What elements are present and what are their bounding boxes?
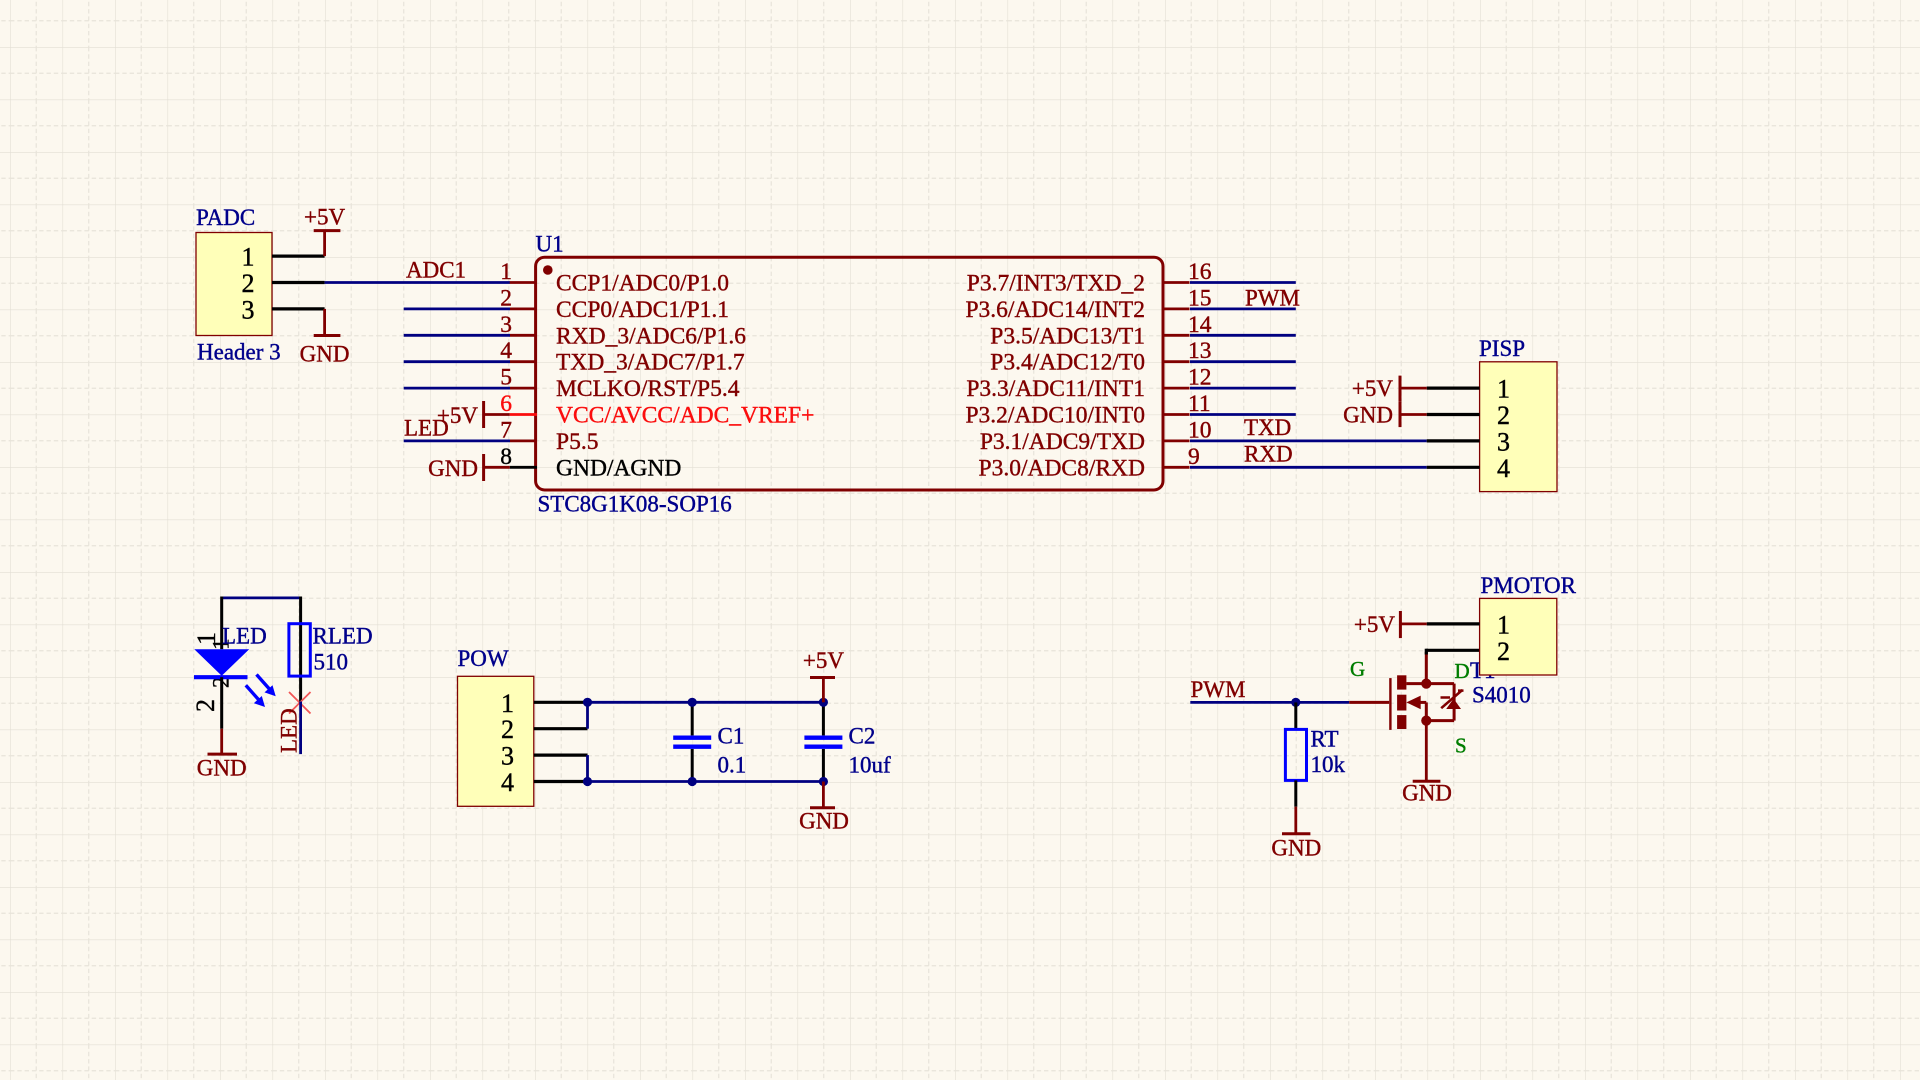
junction at T1 drain	[1421, 679, 1431, 689]
LED D1 pin 1	[220, 597, 223, 650]
ground GND at U1 pin 8	[482, 454, 485, 481]
svg-text:D: D	[1455, 659, 1470, 683]
junction at RT top	[1291, 698, 1300, 707]
POW pin 4	[534, 780, 588, 783]
svg-text:RLED: RLED	[313, 624, 373, 649]
capacitor C1 plates	[673, 736, 711, 740]
svg-text:LED: LED	[277, 708, 302, 753]
PMOTOR pin 1	[1427, 622, 1480, 625]
junction at POW pin4	[583, 777, 592, 786]
wire stub at U1 pin 14	[1190, 334, 1296, 337]
svg-text:P3.5/ADC13/T1: P3.5/ADC13/T1	[990, 323, 1145, 349]
resistor RLED body	[289, 624, 310, 676]
IC U1 body STC8G1K08-SOP16	[536, 257, 1163, 490]
svg-text:1: 1	[501, 689, 514, 718]
U1 pin 3 RXD_3/ADC6/P1.6	[510, 334, 537, 337]
wire GND bottom rail	[588, 780, 824, 783]
svg-text:C1: C1	[718, 724, 745, 749]
POW pin 3	[534, 753, 588, 756]
PISP pin 2	[1427, 413, 1480, 416]
power port +5V at U1 pin 6	[482, 401, 485, 428]
svg-text:PISP: PISP	[1479, 336, 1525, 361]
svg-text:PADC: PADC	[196, 205, 255, 230]
U1 pin 14 P3.5/ADC13/T1	[1162, 334, 1190, 337]
svg-text:S: S	[1455, 734, 1467, 758]
svg-text:P3.6/ADC14/INT2: P3.6/ADC14/INT2	[965, 297, 1145, 323]
transistor T1 channel stubs	[1397, 675, 1406, 689]
wire stub at U1 pin 11	[1190, 413, 1296, 416]
wire from LED anode to RLED	[222, 597, 301, 600]
svg-text:CCP1/ADC0/P1.0: CCP1/ADC0/P1.0	[556, 271, 729, 297]
svg-text:GND: GND	[428, 456, 478, 481]
wire stub at U1 pin 16	[1190, 281, 1296, 284]
body zener diode	[1446, 699, 1461, 709]
LED light arrow 1	[257, 675, 271, 691]
svg-text:10uf: 10uf	[849, 753, 892, 778]
svg-text:P3.4/ADC12/T0: P3.4/ADC12/T0	[990, 350, 1145, 376]
transistor T1 source arrow	[1406, 696, 1420, 710]
svg-text:2: 2	[191, 699, 220, 712]
PADC pin 1	[272, 255, 325, 258]
U1 pin 2 CCP0/ADC1/P1.1	[510, 307, 537, 310]
U1 pin 8 GND/AGND	[510, 466, 537, 469]
power port +5V above C2	[810, 676, 835, 679]
power port +5V at PISP pin 1	[1399, 376, 1402, 402]
svg-text:STC8G1K08-SOP16: STC8G1K08-SOP16	[538, 492, 732, 517]
svg-text:RT: RT	[1311, 727, 1339, 752]
svg-text:RXD_3/ADC6/P1.6: RXD_3/ADC6/P1.6	[556, 323, 746, 349]
ground GND below LED	[220, 729, 223, 754]
wire net ADC1 from PADC.2 to U1.1	[325, 281, 510, 284]
svg-text:GND: GND	[197, 756, 247, 781]
wire stub at U1 pin 12	[1190, 387, 1296, 390]
junction at C2 bottom	[819, 777, 828, 786]
capacitor C2 pins	[822, 702, 825, 735]
U1 pin-1 indicator dot	[543, 265, 553, 275]
svg-text:0.1: 0.1	[718, 753, 747, 778]
wire net TXD from U1.10 to PISP.3	[1190, 439, 1427, 442]
wire stub at U1 pin 4	[404, 360, 510, 363]
svg-text:C2: C2	[849, 724, 876, 749]
transistor T1 source lead	[1426, 719, 1454, 722]
wire +5V top rail	[588, 701, 824, 704]
U1 pin 11 P3.2/ADC10/INT0	[1162, 413, 1190, 416]
wire net LED at U1 pin 7	[404, 439, 510, 442]
transistor T1 gate lead	[1349, 701, 1389, 704]
resistor RT pin 1	[1294, 702, 1297, 729]
connector PMOTOR body	[1480, 598, 1557, 675]
wire stub at U1 pin 2	[404, 307, 510, 310]
svg-text:S4010: S4010	[1472, 683, 1531, 708]
svg-text:Header 3: Header 3	[197, 340, 281, 365]
svg-text:P3.3/ADC11/INT1: P3.3/ADC11/INT1	[966, 376, 1145, 402]
connector POW body	[458, 676, 534, 806]
LED light arrow 2	[246, 685, 260, 701]
PISP pin 1	[1427, 387, 1480, 390]
wire POW pin3-pin4 stub	[586, 755, 589, 781]
connector PADC body	[196, 233, 272, 336]
svg-text:P3.2/ADC10/INT0: P3.2/ADC10/INT0	[965, 403, 1145, 429]
svg-text:VCC/AVCC/ADC_VREF+: VCC/AVCC/ADC_VREF+	[556, 403, 814, 429]
svg-text:TXD: TXD	[1244, 415, 1291, 440]
svg-text:P5.5: P5.5	[556, 429, 598, 455]
U1 pin 10 P3.1/ADC9/TXD	[1162, 439, 1190, 442]
transistor T1 drain lead	[1406, 682, 1454, 685]
capacitor C2 plates	[804, 736, 842, 740]
svg-text:ADC1: ADC1	[406, 258, 466, 283]
ground GND below C2	[822, 782, 825, 808]
transistor T1 gate bar	[1389, 678, 1391, 730]
junction at C1 top	[688, 698, 697, 707]
U1 pin 5 MCLKO/RST/P5.4	[510, 387, 537, 390]
wire stub at U1 pin 3	[404, 334, 510, 337]
no-connect cross marker	[289, 692, 311, 714]
svg-text:LED: LED	[222, 624, 267, 649]
connector PISP body	[1480, 362, 1557, 492]
svg-text:2: 2	[1497, 401, 1510, 430]
svg-text:3: 3	[1497, 427, 1510, 456]
svg-text:G: G	[1350, 657, 1365, 681]
svg-text:+5V: +5V	[803, 648, 844, 673]
svg-text:2: 2	[501, 715, 514, 744]
U1 pin 4 TXD_3/ADC7/P1.7	[510, 360, 537, 363]
U1 pin 9 P3.0/ADC8/RXD	[1162, 466, 1190, 469]
wire net PWM to T1 gate	[1190, 701, 1349, 704]
svg-text:1: 1	[500, 259, 512, 285]
U1 pin 6 VCC/AVCC/ADC_VREF+	[510, 413, 537, 416]
svg-text:1: 1	[1497, 610, 1510, 639]
svg-text:+5V: +5V	[1354, 612, 1395, 637]
PISP pin 4	[1427, 466, 1480, 469]
wire stub at U1 pin 13	[1190, 360, 1296, 363]
U1 pin 15 P3.6/ADC14/INT2	[1162, 307, 1190, 310]
ground GND below T1 source	[1425, 721, 1428, 782]
svg-text:CCP0/ADC1/P1.1: CCP0/ADC1/P1.1	[556, 297, 729, 323]
svg-text:GND: GND	[1402, 781, 1452, 806]
wire net RXD from U1.9 to PISP.4	[1190, 466, 1427, 469]
svg-text:GND: GND	[300, 342, 350, 367]
U1 pin 12 P3.3/ADC11/INT1	[1162, 387, 1190, 390]
U1 pin 1 CCP1/ADC0/P1.0	[510, 281, 537, 284]
svg-text:510: 510	[314, 650, 349, 675]
junction at POW pin1	[583, 698, 592, 707]
svg-text:PMOTOR: PMOTOR	[1481, 573, 1577, 598]
svg-text:+5V: +5V	[437, 403, 478, 428]
svg-text:2: 2	[1497, 637, 1510, 666]
LED D1 symbol	[194, 649, 249, 676]
wire stub at U1 pin 5	[404, 387, 510, 390]
power port +5V at PADC pin 1	[314, 229, 341, 232]
junction at T1 source	[1421, 716, 1431, 726]
svg-text:+5V: +5V	[304, 205, 345, 230]
ground GND at PADC pin 3	[323, 309, 326, 336]
PADC pin 3	[272, 307, 325, 310]
ground GND at PISP pin 2	[1399, 401, 1402, 427]
svg-text:GND: GND	[1271, 836, 1321, 861]
junction at C1 bottom	[688, 777, 697, 786]
svg-text:4: 4	[501, 768, 514, 797]
resistor RLED pin 1	[299, 597, 302, 702]
LED D1 pin 2	[220, 677, 223, 729]
power port +5V at PMOTOR pin 1	[1399, 611, 1402, 638]
svg-text:U1: U1	[536, 232, 564, 257]
transistor T1 drain vertical	[1425, 652, 1428, 684]
svg-text:TXD_3/ADC7/P1.7: TXD_3/ADC7/P1.7	[556, 350, 745, 376]
wire T1 drain to PMOTOR pin 2	[1425, 649, 1428, 655]
svg-text:1: 1	[242, 243, 255, 272]
svg-text:POW: POW	[458, 646, 509, 671]
svg-text:P3.7/INT3/TXD_2: P3.7/INT3/TXD_2	[967, 271, 1145, 297]
POW pin 1	[534, 701, 588, 704]
svg-text:RXD: RXD	[1244, 442, 1293, 467]
U1 pin 13 P3.4/ADC12/T0	[1162, 360, 1190, 363]
wire stub at U1 pin 15	[1190, 307, 1296, 310]
svg-text:MCLKO/RST/P5.4: MCLKO/RST/P5.4	[556, 376, 740, 402]
U1 pin 16 P3.7/INT3/TXD_2	[1162, 281, 1190, 284]
svg-text:4: 4	[1497, 454, 1510, 483]
svg-text:GND: GND	[799, 809, 849, 834]
svg-text:P3.0/ADC8/RXD: P3.0/ADC8/RXD	[979, 455, 1146, 481]
svg-text:3: 3	[501, 742, 514, 771]
svg-text:GND/AGND: GND/AGND	[556, 455, 681, 481]
PISP pin 3	[1427, 439, 1480, 442]
ground GND below RT	[1294, 807, 1297, 834]
junction at C2 top	[819, 698, 828, 707]
POW pin 2	[534, 727, 588, 730]
wire net LED below RLED	[299, 702, 302, 755]
svg-text:P3.1/ADC9/TXD: P3.1/ADC9/TXD	[980, 429, 1145, 455]
svg-text:GND: GND	[1343, 403, 1393, 428]
body diode rail	[1453, 684, 1456, 721]
resistor RT body	[1285, 729, 1306, 780]
PADC pin 2	[272, 281, 325, 284]
svg-text:2: 2	[242, 269, 255, 298]
svg-text:PWM: PWM	[1191, 677, 1246, 702]
svg-text:1: 1	[1497, 375, 1510, 404]
svg-text:10k: 10k	[1311, 752, 1346, 777]
wire POW pin1-pin2 stub	[586, 702, 589, 728]
svg-text:PWM: PWM	[1245, 286, 1300, 311]
capacitor C1 pins	[691, 702, 694, 735]
resistor RT pin 2	[1294, 780, 1297, 806]
svg-text:3: 3	[242, 295, 255, 324]
svg-text:+5V: +5V	[1352, 376, 1393, 401]
U1 pin 7 P5.5	[510, 439, 537, 442]
